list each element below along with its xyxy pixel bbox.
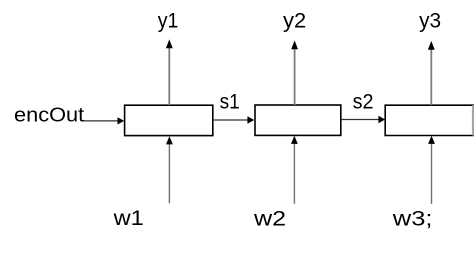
svg-text:w2: w2 (253, 207, 286, 231)
decoder cell box 3 (right edge cut off at image border) (385, 105, 474, 137)
wire arrow s2 from box 2 to box 3 (342, 116, 386, 123)
output arrow y3 (up from box 3) (428, 41, 435, 105)
svg-text:y3: y3 (419, 9, 441, 33)
input arrow w2 (up into box 2) (291, 136, 298, 204)
svg-text:s2: s2 (353, 89, 374, 113)
wire arrow encOut into box 1 (83, 117, 125, 124)
decoder cell box 2 (255, 105, 341, 135)
output arrow y2 (up from box 2) (291, 40, 298, 105)
svg-text:encOut: encOut (14, 105, 85, 127)
decoder cell box 1 (125, 105, 213, 135)
svg-text:s1: s1 (220, 89, 240, 113)
svg-text:w1: w1 (113, 206, 144, 230)
svg-text:y2: y2 (283, 9, 306, 33)
wire arrow s1 from box 1 to box 2 (214, 116, 255, 123)
svg-text:y1: y1 (158, 9, 179, 33)
svg-text:w3;: w3; (392, 207, 433, 231)
input arrow w1 (up into box 1) (166, 136, 173, 203)
input arrow w3 (up into box 3) (428, 136, 435, 204)
output arrow y1 (up from box 1) (166, 39, 173, 105)
